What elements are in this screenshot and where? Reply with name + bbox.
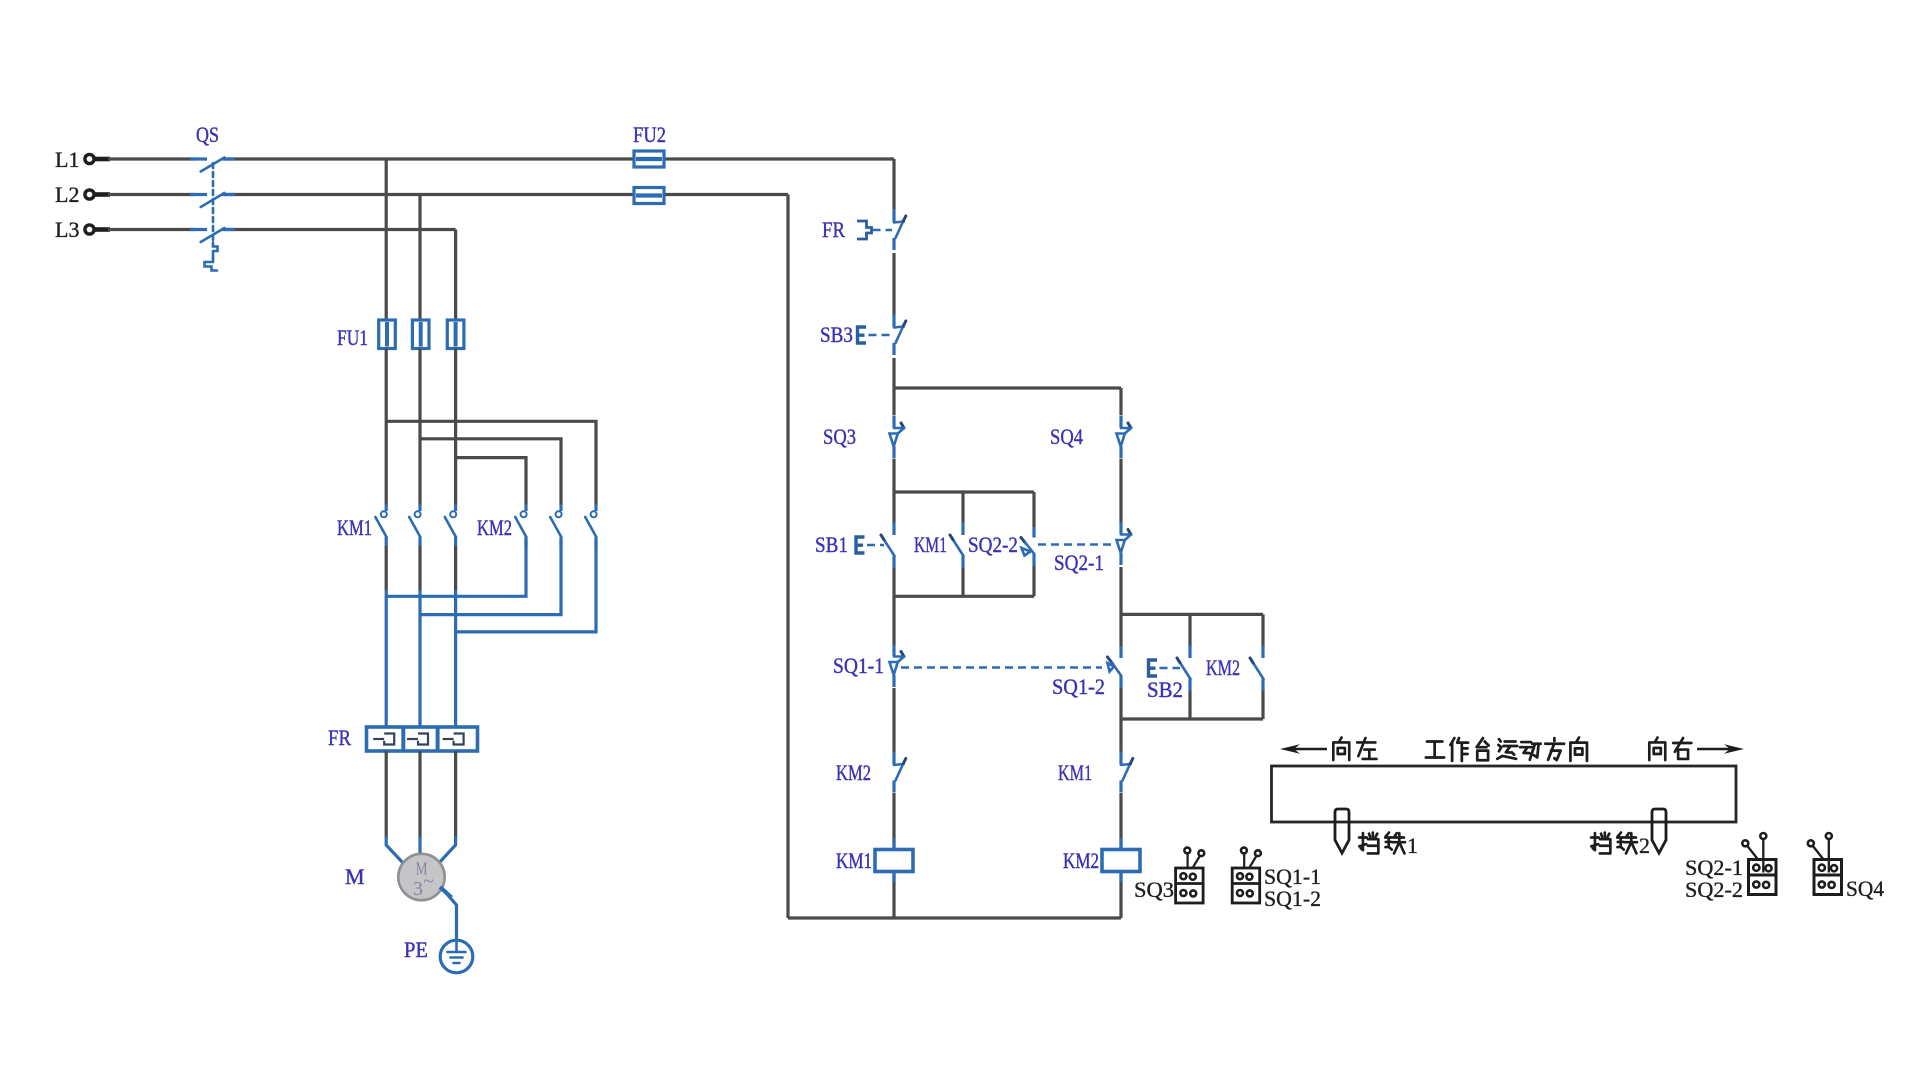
limit switch SQ3 device [1176,848,1205,903]
wire FR to motor a [386,751,404,864]
ground PE symbol [440,940,473,973]
svg-text:SQ1-2: SQ1-2 [1052,674,1105,699]
label dang tie 2 [1591,833,1650,858]
wire KM1 outputs gray [386,546,455,590]
wire L3 [108,228,456,231]
svg-text:SQ2-1: SQ2-1 [1054,550,1104,575]
label SQ2-2 device [1685,877,1743,902]
limit switch SQ2 device [1742,833,1776,895]
actuator SB2 [1149,660,1181,676]
pushbutton SB1 NO [881,522,895,568]
limit switch SQ4 device [1808,833,1842,895]
limit switch SQ3 contact [890,416,905,459]
wire PE [440,887,457,940]
svg-text:L3: L3 [55,217,79,242]
wire KM1 aux branch [961,492,964,596]
wire branch B to KM2 [420,439,561,505]
wire junction to right branch [894,386,1121,389]
dog 2 (dang tie 2) [1652,809,1666,853]
label SQ1-2 [1052,674,1105,699]
link SQ2 dashed [1038,543,1112,546]
contactor KM2 main pole 2 [550,504,561,547]
label KM1 aux [914,532,947,557]
label KM2 interlock [836,760,871,785]
contact KM2 NC interlock [894,752,906,793]
contactor KM2 main pole 3 [585,504,596,547]
svg-text:M: M [345,864,365,889]
contact KM1 aux NO [950,522,964,568]
svg-text:2: 2 [1639,833,1650,858]
svg-text:SQ4: SQ4 [1050,424,1083,449]
wire bottom rail [788,916,1121,919]
wire branch A to KM2 [386,421,596,505]
label PE [404,937,428,962]
pushbutton SB2 NO [1177,645,1191,691]
label KM1 main [337,515,372,540]
svg-text:KM2: KM2 [1063,848,1099,873]
contact KM1 NC interlock [1121,752,1133,793]
svg-text:SQ3: SQ3 [1134,877,1174,902]
svg-text:1: 1 [1407,833,1418,858]
wire L2 drop [418,195,421,321]
label KM1 coil [836,848,872,873]
wire phase B to KM1 [418,349,421,506]
label SQ1-1 [833,653,884,678]
svg-text:SQ1-2: SQ1-2 [1264,886,1321,911]
svg-text:SQ2-2: SQ2-2 [968,532,1018,557]
label dang tie 1 [1359,833,1418,858]
wire reverse box top [1121,613,1263,616]
label SB2 [1147,677,1183,702]
wire SB2 branch [1188,614,1191,719]
svg-text:SQ1-1: SQ1-1 [833,653,884,678]
label SQ3 device [1134,877,1174,902]
limit switch SQ4 contact [1117,416,1132,459]
fuse FU1 a [379,320,396,349]
label SQ2-2 [968,532,1018,557]
switch QS [190,122,235,271]
label KM2 main [477,515,512,540]
label SQ3 control [823,424,856,449]
svg-text:SB1: SB1 [815,532,848,557]
label KM2 aux [1206,655,1240,680]
svg-text:SQ2-2: SQ2-2 [1685,877,1743,902]
contact KM2 aux NO [1250,645,1264,691]
label FU2 [633,122,666,147]
svg-text:L2: L2 [55,182,79,207]
wire L3 drop [454,230,457,321]
svg-text:SQ4: SQ4 [1846,876,1884,901]
svg-text:FU1: FU1 [337,325,368,350]
svg-text:L1: L1 [55,147,79,172]
svg-text:~: ~ [423,871,433,892]
arrow right (xiang you) [1697,744,1744,754]
wire branch C to KM2 [456,458,526,505]
svg-text:KM2: KM2 [477,515,512,540]
label KM2 coil [1063,848,1099,873]
wire start box bottom [894,595,1034,598]
svg-text:KM1: KM1 [914,532,947,557]
label FU1 [337,325,368,350]
label SB3 [820,322,853,347]
node L2 terminal [55,182,110,207]
svg-text:SB2: SB2 [1147,677,1183,702]
limit switch SQ2-1 contact [1117,522,1132,565]
actuator SB1 [856,537,884,553]
node L3 terminal [55,217,110,242]
dog 1 (dang tie 1) [1335,809,1349,853]
coil KM1 [875,838,913,882]
wire start box top [894,490,1034,493]
label FR power [328,725,351,750]
text xiang zuo [1333,738,1376,761]
svg-text:3: 3 [413,878,423,900]
label FR control [822,217,845,242]
link SQ1 dashed [901,666,1102,669]
fuse FU1 c [447,320,464,349]
wire SQ2-2 branch [1032,492,1035,596]
contactor KM1 main pole 1 [375,504,386,547]
text worktable motion direction [1426,738,1587,761]
wire right branch [1119,388,1122,918]
svg-text:SQ3: SQ3 [823,424,856,449]
contactor KM1 main pole 2 [409,504,420,547]
wire phase A to KM1 [385,349,388,506]
wire phase C to KM1 [454,349,457,506]
label SQ4 device [1846,876,1884,901]
label SQ4 control [1050,424,1083,449]
contactor KM1 main pole 3 [445,504,456,547]
node L1 terminal [55,147,110,172]
contactor KM2 main pole 1 [515,504,526,547]
wire outputs to FR [386,590,455,729]
wire control right feed (L2) [786,195,789,919]
label SQ2-1 device [1685,855,1743,880]
fuse FU2 (L1 pole) [634,151,664,167]
label SQ1-1 device [1264,864,1321,889]
arrow left (xiang zuo) [1280,744,1327,754]
text xiang you [1649,738,1691,761]
svg-text:FR: FR [822,217,845,242]
motor M 3~ [398,854,444,900]
svg-text:KM1: KM1 [337,515,372,540]
wire crossover 3 [456,540,596,632]
svg-text:FU2: FU2 [633,122,666,147]
label KM1 interlock [1058,760,1092,785]
wire crossover 1 [386,540,526,596]
svg-text:SB3: SB3 [820,322,853,347]
wire FR to motor b [418,751,421,855]
label SQ2-1 [1054,550,1104,575]
svg-text:KM1: KM1 [836,848,872,873]
svg-text:PE: PE [404,937,428,962]
label M [345,864,365,889]
actuator FR [857,221,892,239]
svg-text:FR: FR [328,725,351,750]
svg-text:KM2: KM2 [1206,655,1240,680]
svg-text:KM2: KM2 [836,760,871,785]
label SQ1-2 device [1264,886,1321,911]
wire control left feed [892,159,895,918]
wire FR to motor c [438,751,456,864]
wire reverse box bottom [1121,717,1263,720]
fuse FU1 b [412,320,429,349]
wire crossover 2 [420,540,561,615]
wire L1 [108,157,894,160]
limit switch SQ2-2 contact [1021,527,1034,566]
actuator SB3 [858,327,892,343]
svg-text:QS: QS [196,122,219,147]
limit switch SQ1-2 contact [1108,646,1122,688]
coil KM2 [1102,838,1140,882]
wire L2 [108,193,788,196]
svg-text:KM1: KM1 [1058,760,1092,785]
limit switch SQ1 device [1232,848,1261,903]
fuse FU2 (L2 pole) [634,188,664,204]
wire L1 drop [385,159,388,320]
contact FR NC [894,209,906,250]
limit switch SQ1-1 contact [890,644,905,687]
pushbutton SB3 NC [894,314,906,355]
worktable body [1272,766,1737,822]
wire KM2 aux branch [1261,614,1264,719]
label SB1 [815,532,848,557]
thermal relay FR heaters [367,727,478,751]
